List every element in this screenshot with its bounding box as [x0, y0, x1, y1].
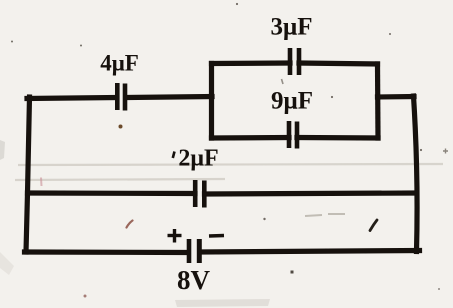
svg-text:8V: 8V: [177, 265, 211, 295]
svg-text:3μF: 3μF: [271, 14, 313, 41]
svg-text:4μF: 4μF: [100, 51, 139, 76]
svg-text:9μF: 9μF: [271, 88, 313, 115]
svg-text:2μF: 2μF: [178, 146, 218, 172]
